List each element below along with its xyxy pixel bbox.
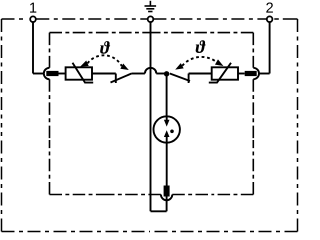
disconnector right blade xyxy=(170,74,190,82)
outer enclosure border right edge xyxy=(297,19,299,125)
plug socket bulge right xyxy=(253,68,259,79)
varistor RV2 body xyxy=(212,67,238,79)
ground symbol bar 1 xyxy=(145,5,157,7)
spark gap F1 bottom electrode arrowhead xyxy=(164,130,170,137)
outer enclosure border top edge xyxy=(2,18,28,20)
module box bottom edge right segment xyxy=(172,194,213,196)
wire varistor RV1 to disconnector xyxy=(92,73,116,75)
plug contact blade left xyxy=(46,71,58,76)
disconnector right fixed contact stub xyxy=(188,74,190,84)
module box top edge xyxy=(50,32,152,34)
thermal link arc right arrowhead at varistor xyxy=(215,59,223,66)
terminal 2 circle xyxy=(267,16,273,22)
terminal 2 label xyxy=(266,2,273,12)
module box right edge upper segment xyxy=(252,33,254,68)
thermal link arc left xyxy=(88,55,122,66)
ground symbol bar 2 xyxy=(146,8,154,10)
ground symbol stem xyxy=(149,1,151,6)
thermal link arc left arrowhead at disconnector xyxy=(120,64,128,70)
wire varistor RV2 to right plug xyxy=(238,73,245,75)
thermal link arc right arrowhead at disconnector xyxy=(175,63,183,69)
plug socket bulge left xyxy=(44,68,50,79)
wire node to spark gap F1 xyxy=(166,74,168,121)
junction node dot xyxy=(164,71,169,76)
wire ground loop riser xyxy=(166,196,168,211)
wire crossing hop over ground line xyxy=(145,68,156,74)
disconnector left fixed contact stub xyxy=(115,74,117,84)
bottom plug contact blade xyxy=(164,186,170,197)
plug contact blade right xyxy=(245,71,257,76)
thermal symbol theta left xyxy=(100,41,110,54)
wire terminal 1 drop xyxy=(32,22,34,74)
plug socket bulge bottom xyxy=(161,195,172,201)
varistor RV1 body xyxy=(66,67,92,79)
wire left plug to varistor RV1 xyxy=(59,73,66,75)
wire blade to hop xyxy=(132,73,145,75)
varistor RV1 strike line xyxy=(73,63,94,83)
module box left edge upper segment xyxy=(49,33,51,68)
terminal 1 label xyxy=(30,3,36,13)
thermal symbol theta right xyxy=(196,40,206,53)
wire right socket to terminal 2 xyxy=(259,73,270,75)
ground terminal circle xyxy=(148,16,154,22)
wire terminal 1 to left socket xyxy=(33,73,44,75)
wire disconnector to varistor RV2 xyxy=(189,73,212,75)
varistor RV2 strike line xyxy=(209,63,231,83)
wire terminal 2 drop xyxy=(269,22,271,74)
wire ground loop bottom xyxy=(151,210,167,212)
thermal link arc right xyxy=(182,57,216,66)
module box left edge lower segment xyxy=(49,79,51,140)
wire hop to node xyxy=(156,73,166,75)
spark gap F1 gas dot xyxy=(170,130,174,134)
module box bottom edge left segment xyxy=(105,194,161,196)
outer enclosure border bottom edge xyxy=(2,231,151,233)
spark gap F1 top electrode shaft xyxy=(166,116,168,121)
spark gap F1 bottom electrode shaft xyxy=(166,137,168,186)
disconnector left blade xyxy=(111,74,132,83)
spark gap F1 gas discharge tube body xyxy=(154,116,180,142)
terminal 1 circle xyxy=(30,16,36,22)
outer enclosure border left edge xyxy=(1,19,3,125)
wire ground line center drop xyxy=(150,22,152,211)
thermal link arc left arrowhead at varistor xyxy=(80,61,89,67)
module box right edge lower segment xyxy=(252,79,254,140)
spark gap F1 top electrode arrowhead xyxy=(164,120,170,127)
ground symbol bar 3 xyxy=(148,11,152,13)
